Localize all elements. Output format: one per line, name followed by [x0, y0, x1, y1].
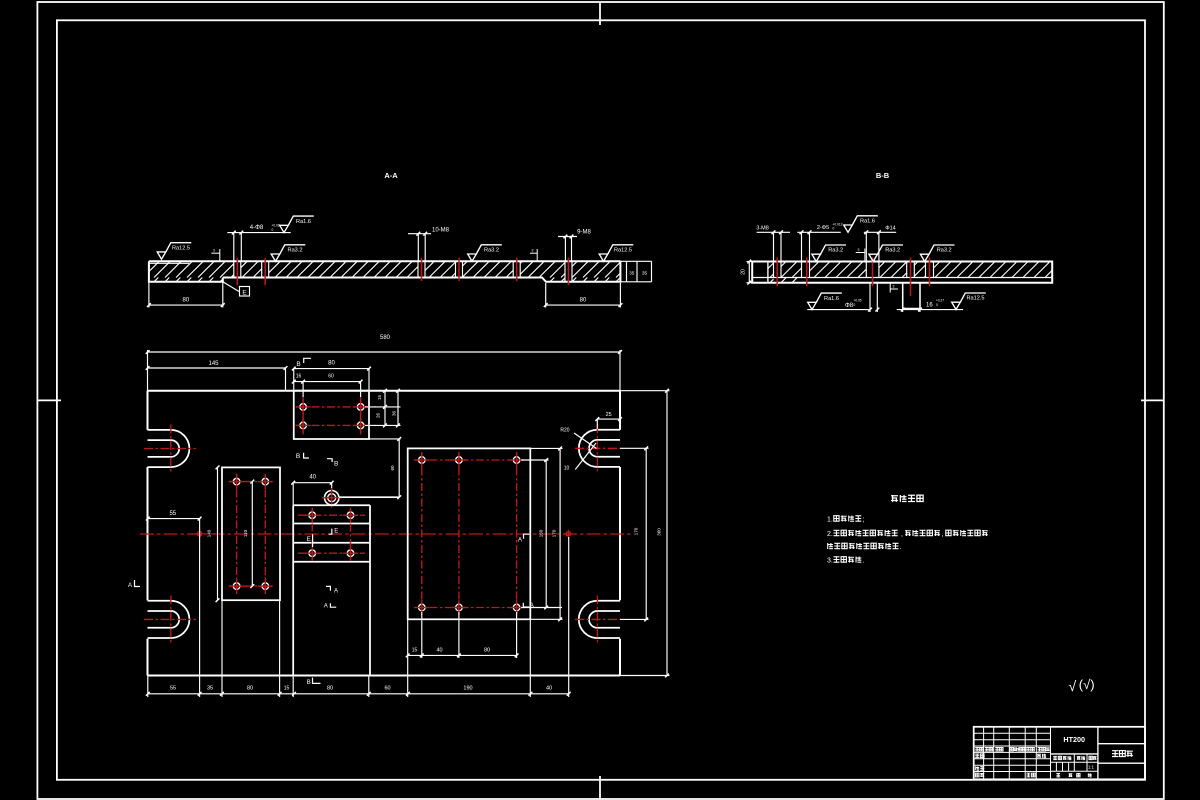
- svg-text:3: 3: [893, 285, 895, 289]
- svg-text:A: A: [518, 538, 522, 544]
- svg-text:170: 170: [552, 529, 557, 537]
- part name jiajuti: [1112, 750, 1118, 756]
- svg-text:B: B: [307, 680, 311, 686]
- roughness Ra3.2 left A-A: [271, 254, 280, 261]
- dim phi8 below B-B: [807, 309, 868, 311]
- svg-text:4-Φ8: 4-Φ8: [250, 225, 264, 231]
- roughness Ra1.6 on dim B-B: [844, 225, 853, 232]
- svg-text:35: 35: [629, 271, 635, 276]
- svg-text:+0.05: +0.05: [854, 299, 862, 303]
- section mark E right strip: [329, 529, 332, 535]
- dim 40 hub: [293, 482, 332, 484]
- dim 4-phi8 top: [227, 232, 290, 234]
- U-slot upper right: [597, 429, 620, 431]
- tall rect red centerlines: [236, 474, 238, 594]
- title block left grid verticals: [984, 727, 1051, 780]
- svg-text:3: 3: [213, 249, 215, 253]
- section B-B hatching: [768, 262, 1052, 283]
- svg-text:60: 60: [384, 686, 390, 692]
- svg-text:E: E: [334, 528, 338, 534]
- svg-text:A-A: A-A: [384, 171, 398, 180]
- section B-B hole centerlines red: [776, 258, 778, 287]
- svg-text:B-B: B-B: [876, 171, 890, 180]
- svg-text:16: 16: [926, 303, 933, 309]
- svg-text:580: 580: [380, 335, 391, 341]
- section B-B bar outline: [752, 262, 1052, 283]
- centering mark bottom: [599, 776, 601, 799]
- svg-text:360: 360: [657, 528, 662, 536]
- svg-text:3: 3: [858, 248, 860, 252]
- title block label row texts: [975, 747, 979, 751]
- tall rect dim line 140: [217, 467, 219, 600]
- svg-text:80: 80: [182, 298, 189, 304]
- svg-text:0: 0: [854, 303, 856, 307]
- dim row rect bottom 15 40 80: [408, 654, 517, 656]
- big rect holes: [419, 457, 426, 464]
- dim 80 bottom right A-A: [545, 283, 547, 308]
- dim 580 top: [147, 350, 149, 391]
- big rect red centerlines: [414, 459, 524, 461]
- section B-B hole edges: [773, 262, 775, 278]
- svg-text:80: 80: [484, 648, 490, 654]
- svg-text:B: B: [296, 361, 300, 368]
- plan plate bottom edge: [148, 675, 621, 677]
- hub connect line to step: [339, 496, 399, 498]
- svg-text:+0.27: +0.27: [936, 299, 944, 303]
- dims 15 26 36 right of subplate: [369, 390, 401, 392]
- svg-text:Ra3.2: Ra3.2: [937, 248, 952, 254]
- svg-text:Ra3.2: Ra3.2: [484, 248, 499, 254]
- datum E leader A-A: [223, 282, 239, 292]
- dim 145 top: [285, 368, 287, 391]
- roughness Ra12.5 left A-A: [157, 252, 166, 259]
- svg-text:3.: 3.: [827, 558, 833, 565]
- svg-text:10-M8: 10-M8: [432, 228, 450, 234]
- svg-text:Ra1.6: Ra1.6: [296, 219, 311, 225]
- svg-text:Ra12.5: Ra12.5: [966, 296, 984, 302]
- big rect bottom hole dim extensions: [421, 612, 423, 658]
- tech req line 3: [828, 543, 833, 549]
- svg-text:55: 55: [169, 511, 176, 517]
- roughness Ra12.5 right A-A: [599, 254, 608, 261]
- step dim right A-A: [530, 252, 537, 254]
- red point marker right: [566, 532, 570, 536]
- svg-text:40: 40: [436, 648, 442, 654]
- svg-text:40: 40: [546, 686, 552, 692]
- dim 20 left B-B: [747, 261, 753, 263]
- tall rectangle left: [222, 467, 280, 600]
- title block stage mark headers: [1053, 756, 1057, 760]
- svg-text:Φ8: Φ8: [845, 303, 854, 309]
- svg-text:20: 20: [741, 269, 747, 275]
- svg-text:Ra3.2: Ra3.2: [828, 248, 843, 254]
- svg-text:1.: 1.: [827, 517, 833, 524]
- svg-text:Ra1.6: Ra1.6: [860, 219, 875, 225]
- svg-text:2-Φ5: 2-Φ5: [817, 225, 829, 231]
- strip red centerlines: [298, 514, 365, 516]
- roughness Ra12.5 below B-B: [952, 302, 961, 309]
- svg-text:15: 15: [412, 648, 418, 654]
- centering mark right: [1141, 399, 1164, 401]
- svg-text:B: B: [334, 460, 338, 467]
- svg-text:.: .: [863, 558, 865, 565]
- svg-text:;: ;: [863, 517, 865, 524]
- dimension oblique ticks plan: [146, 350, 150, 354]
- svg-text:A: A: [324, 604, 328, 610]
- plan plate left edge: [147, 391, 149, 430]
- U-slot lower right: [597, 600, 620, 602]
- right side dim extensions: [521, 459, 549, 461]
- red point marker left: [197, 532, 201, 536]
- svg-text:80: 80: [327, 686, 333, 692]
- svg-text:0: 0: [272, 228, 274, 232]
- dim 80 bottom left A-A: [148, 282, 150, 308]
- svg-text:60: 60: [390, 465, 395, 471]
- title block sheji row: [975, 754, 979, 758]
- boss below bar B-B: [902, 283, 904, 309]
- centering mark top: [599, 2, 601, 25]
- svg-text:HT200: HT200: [1063, 735, 1085, 744]
- roughness Ra1.6 on dim line A-A: [280, 225, 289, 232]
- svg-text:80: 80: [247, 686, 253, 692]
- vertical dim 170 slots right: [645, 448, 647, 619]
- svg-text:Ra12.5: Ra12.5: [614, 248, 632, 254]
- title block gongyi row: [975, 773, 979, 777]
- svg-text:,: ,: [942, 531, 944, 538]
- svg-text:+0.03: +0.03: [272, 224, 280, 228]
- dim 60 step: [398, 439, 400, 497]
- svg-text:16: 16: [296, 374, 302, 380]
- dim phi14 B-B: [864, 231, 896, 233]
- svg-text:A: A: [128, 583, 132, 589]
- dim 3-M8 B-B: [757, 231, 790, 233]
- svg-text:150: 150: [539, 529, 544, 537]
- roughness Ra3.2 first B-B: [812, 254, 821, 261]
- dims 35 35 right end A-A: [620, 260, 651, 262]
- tall rect holes: [233, 478, 240, 485]
- svg-text:√: √: [1069, 678, 1077, 694]
- svg-text:R20: R20: [560, 428, 569, 434]
- svg-text:40: 40: [309, 475, 316, 481]
- hub boss circles: [325, 491, 339, 505]
- svg-text:Ra12.5: Ra12.5: [172, 245, 190, 251]
- svg-text:E: E: [242, 289, 247, 296]
- section mark A strip lower: [326, 586, 330, 590]
- svg-text:60: 60: [328, 374, 334, 380]
- vertical extension lines lower plan: [199, 519, 201, 697]
- section mark B right of subplate: [327, 459, 332, 462]
- svg-text:1:1: 1:1: [1088, 765, 1094, 770]
- svg-text:Ra1.6: Ra1.6: [824, 296, 839, 302]
- plan plate top edge: [148, 390, 621, 392]
- svg-text:A: A: [530, 603, 534, 609]
- dim 10-M8 A-A: [408, 233, 431, 235]
- subplate bottom edge extension: [369, 438, 401, 440]
- svg-text:0: 0: [833, 227, 835, 231]
- svg-text:A: A: [334, 589, 338, 595]
- svg-text:36: 36: [391, 411, 396, 417]
- sub-plate top: [294, 391, 369, 439]
- technical requirements title: [891, 495, 898, 502]
- big rectangle right: [408, 448, 531, 619]
- svg-text:25: 25: [606, 412, 612, 418]
- center strip outline: [292, 505, 294, 675]
- title block sheets row: [1056, 773, 1060, 777]
- roughness Ra3.2 third B-B: [920, 254, 929, 261]
- strip holes: [309, 512, 316, 519]
- dim 25 upper right slot: [597, 418, 620, 420]
- svg-text:B: B: [296, 453, 300, 460]
- roughness Ra3.2 mid A-A: [468, 254, 477, 261]
- vertical dim 170 right of rect: [559, 448, 561, 619]
- svg-text:,: ,: [901, 531, 903, 538]
- svg-text:35: 35: [642, 271, 648, 276]
- svg-text:.: .: [900, 544, 902, 551]
- dim chain bottom row: [148, 693, 569, 695]
- dim 55 left: [148, 518, 200, 520]
- svg-text:55: 55: [170, 686, 176, 692]
- sub-plate holes: [300, 404, 307, 411]
- dim 16 boss B-B: [897, 309, 963, 311]
- title block middle dividers: [1097, 727, 1099, 780]
- title block shenhe row: [976, 766, 980, 770]
- svg-text:110: 110: [243, 529, 248, 537]
- svg-text:15: 15: [377, 395, 382, 401]
- svg-text:140: 140: [207, 529, 212, 537]
- section A-A hatching: [149, 261, 621, 282]
- section mark A big rect bottom right: [523, 603, 529, 607]
- svg-text:9-M8: 9-M8: [577, 230, 591, 236]
- step dim left A-A: [211, 252, 220, 254]
- dim 80 top subplate: [294, 368, 369, 370]
- svg-text:Φ14: Φ14: [885, 226, 896, 232]
- svg-text:26: 26: [376, 413, 381, 419]
- svg-text:145: 145: [208, 361, 219, 367]
- svg-text:80: 80: [328, 361, 335, 367]
- svg-text:(√): (√): [1079, 677, 1095, 692]
- dim 2-phi5 B-B: [797, 231, 841, 233]
- dim 16 60 subplate: [294, 381, 361, 383]
- vertical dim 150 right of rect: [545, 460, 547, 608]
- svg-text:Ra3.2: Ra3.2: [288, 248, 303, 254]
- svg-text:E: E: [307, 537, 311, 543]
- roughness Ra3.2 second B-B: [869, 254, 878, 261]
- svg-text:15: 15: [284, 686, 290, 692]
- svg-text:35: 35: [207, 686, 213, 692]
- svg-text:0: 0: [936, 303, 938, 307]
- main horizontal centerline red: [140, 533, 632, 535]
- U-slot lower left: [148, 600, 171, 602]
- sub-plate red centerlines: [296, 406, 376, 408]
- title block outer: [974, 727, 1145, 780]
- dim 9-M8 A-A: [558, 236, 577, 238]
- centering mark left: [37, 399, 61, 401]
- svg-text:10: 10: [564, 466, 570, 472]
- plan plate right edge: [619, 391, 621, 430]
- step dim B-B top: [856, 252, 865, 254]
- tall rect dim line 110: [251, 482, 253, 586]
- dimension oblique ticks B-B: [772, 230, 776, 234]
- svg-text:2.: 2.: [827, 531, 833, 538]
- step dim B-B below: [890, 288, 898, 290]
- vertical dim 360 right: [666, 391, 668, 676]
- svg-text:80: 80: [580, 298, 587, 304]
- svg-text:190: 190: [463, 686, 472, 692]
- svg-text:170: 170: [634, 527, 639, 535]
- title block right dividers: [1098, 743, 1145, 745]
- section A-A hole edges: [233, 261, 235, 277]
- roughness Ra1.6 below B-B: [808, 302, 817, 309]
- U-slot upper left: [148, 429, 171, 431]
- section A-A hole centerlines red: [236, 258, 238, 286]
- dimension oblique ticks A-A: [232, 231, 236, 235]
- section B-B left block edge: [767, 262, 769, 283]
- title block left grid horizontals: [974, 733, 1051, 771]
- section A-A bar outline: [149, 260, 621, 262]
- svg-text:3: 3: [532, 249, 534, 253]
- svg-text:3-M8: 3-M8: [756, 226, 769, 232]
- svg-text:Ra3.2: Ra3.2: [885, 248, 900, 254]
